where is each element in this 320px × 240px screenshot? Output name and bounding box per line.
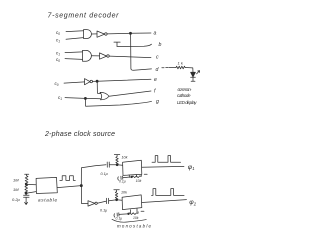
node F junction dot bbox=[80, 185, 82, 187]
capacitor 0.2u bbox=[24, 193, 30, 202]
node C junction dot bbox=[84, 97, 86, 99]
under-box RC of mono 1 bbox=[129, 175, 136, 178]
wire astable out to node F bbox=[57, 186, 81, 188]
wire c1 to AND2 bbox=[65, 51, 83, 54]
node H junction dot bbox=[116, 199, 118, 201]
wire c0 to AND1 bbox=[66, 30, 84, 33]
power tee for segment b bbox=[114, 42, 120, 46]
monostable box U8 bbox=[123, 160, 142, 175]
OR gate U6 bbox=[100, 92, 109, 99]
LED D1 bbox=[191, 72, 196, 77]
svg-text:0.1μ: 0.1μ bbox=[100, 209, 107, 213]
wire inverter to node A bbox=[107, 32, 130, 35]
svg-text:a: a bbox=[154, 31, 157, 37]
wire cap to node G bbox=[110, 164, 117, 166]
ground arrow bbox=[25, 202, 28, 205]
wire AND1 to inverter bbox=[92, 33, 97, 35]
wire AND2 to inverter bbox=[92, 55, 100, 57]
power tee P1 bbox=[25, 174, 29, 176]
node A junction dot bbox=[129, 32, 131, 34]
capacitor C3 bbox=[107, 198, 109, 203]
AND gate U3 bbox=[83, 50, 92, 61]
svg-text:10k: 10k bbox=[121, 190, 127, 194]
wire node A to a bbox=[131, 32, 152, 34]
node B junction dot bbox=[96, 80, 98, 82]
wire node C to OR input bbox=[85, 97, 100, 99]
wire node G to mono box 1 bbox=[117, 164, 122, 166]
svg-text:0.1μ: 0.1μ bbox=[116, 216, 123, 220]
svg-text:0.1μ: 0.1μ bbox=[119, 180, 126, 184]
wire inverter to c bbox=[109, 56, 151, 58]
NOT gate U5 bbox=[85, 79, 91, 85]
power tee (top branch) bbox=[114, 155, 120, 157]
svg-text:cathode: cathode bbox=[177, 93, 191, 98]
wire node F down to NOT gate bbox=[81, 186, 88, 204]
brace under mono 2 bbox=[112, 219, 146, 222]
wire resistor to corner bbox=[185, 68, 193, 73]
wire OR to f bbox=[109, 91, 151, 96]
node E junction dot bbox=[25, 192, 27, 194]
wire node B down to OR input bbox=[97, 81, 100, 93]
NOT gate U9 bbox=[88, 201, 95, 206]
wire c0 to AND2 bbox=[65, 58, 83, 61]
svg-text:c: c bbox=[156, 55, 159, 61]
node G junction dot bbox=[116, 164, 118, 166]
inverter U2 bbox=[97, 31, 105, 37]
svg-text:common-: common- bbox=[178, 87, 193, 92]
inverter U4 bbox=[100, 53, 107, 59]
svg-text:7-segment decoder: 7-segment decoder bbox=[48, 13, 120, 20]
svg-text:1M: 1M bbox=[13, 187, 19, 192]
wire cap to node H bbox=[109, 200, 117, 201]
square wave symbol bbox=[60, 176, 75, 181]
capacitor C2 bbox=[107, 162, 109, 167]
resistor 10k (bottom branch) bbox=[115, 191, 118, 199]
wire c0 to NOT3 bbox=[64, 82, 85, 83]
pulse waveform phi2 bbox=[152, 189, 185, 196]
svg-text:10k: 10k bbox=[122, 155, 128, 159]
astable box U7 bbox=[36, 177, 57, 193]
AND gate U1 bbox=[84, 30, 92, 39]
vertical bus from node A down to d bbox=[131, 33, 152, 70]
wire node E to astable box bbox=[26, 192, 36, 194]
svg-text:g: g bbox=[156, 99, 159, 105]
wire node B to e bbox=[97, 79, 151, 81]
wire node F up and right to cap bbox=[81, 165, 106, 186]
svg-text:monostable: monostable bbox=[117, 223, 152, 228]
wire mono 1 out to phi1 bbox=[142, 165, 184, 168]
svg-text:1M: 1M bbox=[13, 177, 19, 182]
svg-text:e: e bbox=[154, 77, 157, 83]
resistor 1M (middle) bbox=[25, 184, 28, 193]
resistor 10k (top branch) bbox=[116, 156, 119, 164]
svg-text:0.1μ: 0.1μ bbox=[101, 172, 108, 176]
svg-text:10k: 10k bbox=[136, 179, 142, 183]
resistor 1M (top) bbox=[25, 176, 28, 184]
LED emission arrow bbox=[197, 71, 200, 74]
wire b bbox=[117, 44, 152, 46]
svg-text:10k: 10k bbox=[133, 216, 139, 220]
monostable box U10 bbox=[122, 195, 142, 210]
resistor 1k zigzag bbox=[176, 66, 185, 69]
power tee (bottom branch) bbox=[114, 190, 120, 192]
wire node H to mono box 2 bbox=[117, 199, 122, 202]
wire to resistor bbox=[169, 67, 176, 69]
svg-text:b: b bbox=[159, 42, 162, 48]
wire mono 2 out to phi2 bbox=[142, 200, 187, 203]
pulse waveform phi1 bbox=[152, 156, 181, 163]
wire c1 to AND1 bbox=[66, 38, 84, 40]
node D junction dot bbox=[25, 183, 27, 185]
wire node C down to g bbox=[86, 98, 152, 106]
wire NOT3 to node B bbox=[93, 80, 98, 82]
wire NOT to cap bbox=[97, 201, 106, 203]
svg-text:0.2μ: 0.2μ bbox=[12, 197, 21, 202]
wire node D to astable box bbox=[26, 183, 36, 185]
svg-text:astable: astable bbox=[38, 198, 57, 203]
svg-text:LED display: LED display bbox=[177, 100, 197, 105]
under-box RC of mono 2 bbox=[131, 209, 138, 213]
svg-text:2-phase clock source: 2-phase clock source bbox=[44, 131, 115, 138]
wire c1 to node C bbox=[65, 97, 85, 100]
continuation dashes to LED bbox=[162, 66, 168, 68]
